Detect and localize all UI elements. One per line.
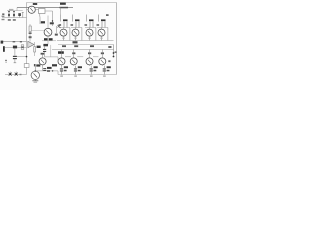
resistor ladder cell 4 top [97, 15, 108, 41]
diode D1 [58, 25, 61, 29]
transistor TR6 bottom [70, 50, 83, 66]
capacitor C3 [5, 48, 17, 62]
transistor TR7 bottom [86, 50, 99, 66]
wire base rail bottom row [52, 49, 114, 51]
wire emitter rail top row [57, 40, 114, 42]
wire bottom rail left [5, 74, 27, 76]
resistor R right [108, 46, 111, 48]
resistor R9 [21, 45, 24, 50]
input jack J1 [2, 13, 4, 15]
wire driver base [45, 45, 58, 62]
wire right border [116, 3, 118, 75]
resistor ladder cell 1 top [59, 15, 70, 41]
resistor R5 [50, 11, 54, 26]
wire top border rail [27, 2, 117, 4]
capacitor C2 electrolytic [3, 46, 5, 52]
wire output stub right [113, 45, 115, 57]
wire output rail [58, 44, 114, 46]
wire feeder x60.5 [60, 8, 62, 15]
transistor Q3 driver [39, 53, 46, 71]
resistor base stopper B2 [74, 45, 78, 47]
resistor base stopper B1 [62, 45, 66, 47]
label V+ rail [60, 3, 66, 5]
capacitor C5 [43, 68, 46, 71]
capacitor C out2 [74, 66, 82, 77]
label mid right [52, 64, 57, 66]
capacitor C out4 [103, 66, 111, 77]
wire V+ rail [17, 7, 73, 9]
transistor TR1 [60, 28, 67, 41]
resistor R6 bias column [42, 26, 58, 41]
label output node [73, 41, 78, 43]
wire feedback node [17, 56, 27, 58]
capacitor C out1 [60, 66, 68, 77]
transistor Q1 [27, 3, 39, 13]
resistor R1 [8, 11, 10, 18]
node output terminal dots [113, 52, 115, 54]
transistor Q4 output driver [31, 64, 40, 80]
resistor R4 [40, 17, 45, 25]
fuse F2 [15, 72, 18, 76]
label wire ticks [13, 41, 16, 42]
wire input top [2, 17, 27, 19]
op-amp triangle A1 [28, 41, 34, 47]
label R20 C11 [43, 44, 48, 46]
fuse F1 [9, 72, 12, 76]
transistor TR4 [98, 28, 105, 41]
relay box K1 [39, 9, 53, 17]
capacitor C1 [18, 13, 21, 17]
capacitor C4 [43, 46, 46, 57]
wire feedback [5, 47, 13, 49]
resistor R3 [22, 12, 24, 17]
wire input bottom [2, 41, 27, 43]
transistor TR8 bottom [99, 50, 111, 66]
capacitor C out3 [90, 66, 98, 77]
ground under Q4 [32, 80, 38, 83]
label C5 [47, 67, 52, 72]
transistor Q2 [32, 16, 53, 45]
wire Q4 collector [35, 70, 58, 74]
label input resistors [8, 19, 11, 21]
transistor TR3 [86, 28, 93, 41]
transistor TR5 bottom [58, 50, 71, 69]
label right small [106, 14, 109, 16]
wire left bus vertical [26, 3, 28, 75]
resistor base stopper B3 [90, 45, 94, 47]
resistor ladder cell 3 top [85, 15, 96, 41]
label faint corner [9, 9, 13, 11]
resistor R10 mid column [34, 42, 41, 56]
wire top small [7, 10, 23, 12]
wire feedback 2 [17, 47, 21, 49]
resistor R8 [13, 46, 17, 49]
node input terminal [1, 41, 4, 44]
resistor ladder cell 2 top [71, 15, 82, 41]
resistor R7 left of Q2 [29, 24, 32, 42]
wire bottom negative rail right [58, 74, 117, 76]
component box B2 [24, 64, 29, 68]
transistor TR2 [72, 28, 79, 41]
resistor R2 [13, 11, 15, 18]
